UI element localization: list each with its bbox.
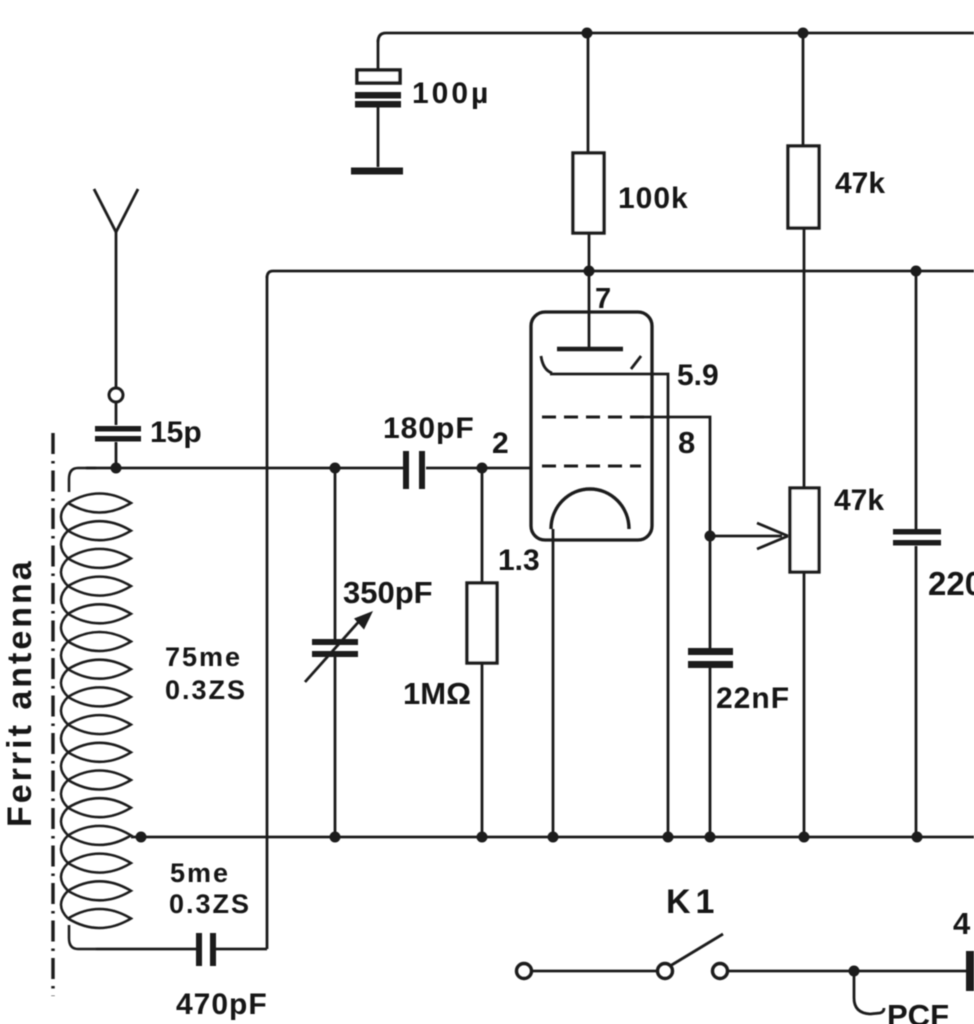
wire coil top to grid node [86, 467, 531, 470]
junction dot PCF pointer [849, 966, 860, 977]
wire cathode return bus [131, 836, 974, 839]
wire coil bottom to 470pF [96, 948, 196, 951]
resistor R1 100k [573, 33, 604, 271]
svg-text:47k: 47k [835, 167, 885, 200]
svg-text:8: 8 [678, 425, 695, 460]
svg-text:7: 7 [595, 283, 611, 315]
svg-text:5me: 5me [170, 858, 230, 888]
junction dot 22nF / bus [705, 832, 716, 843]
svg-text:K1: K1 [666, 883, 719, 921]
svg-text:100k: 100k [618, 182, 689, 215]
wire switch to battery [728, 970, 966, 973]
resistor R3 1M [467, 468, 497, 837]
tube grid g2 dashed [542, 416, 645, 419]
capacitor C1 100u electrolytic [355, 70, 401, 108]
svg-text:22nF: 22nF [716, 682, 790, 715]
resistor R2 47k top [788, 33, 819, 488]
svg-text:PCF: PCF [887, 998, 949, 1024]
junction dot pot / bus [799, 832, 810, 843]
junction dot node 2 / 1M branch [477, 463, 488, 474]
tube anode plate [557, 347, 623, 352]
junction dot 220 / bus [912, 832, 923, 843]
junction dot 1M / bus [477, 832, 488, 843]
svg-text:470pF: 470pF [176, 988, 268, 1021]
capacitor C7 220 [893, 271, 941, 837]
potentiometer wiper arrow [710, 523, 788, 549]
junction dot cathode / bus [548, 832, 559, 843]
svg-text:15p: 15p [150, 416, 202, 449]
svg-text:180pF: 180pF [383, 412, 475, 445]
capacitor C5 180pF [403, 451, 425, 489]
capacitor C3 470pF [196, 933, 267, 966]
wire anode supply bus [267, 271, 974, 278]
svg-text:1.3: 1.3 [498, 544, 540, 577]
junction dot bus2 / 220 cap [911, 266, 922, 277]
junction dot coil tap [136, 832, 147, 843]
svg-text:47k: 47k [834, 484, 884, 517]
svg-text:Ferrit antenna: Ferrit antenna [1, 558, 39, 827]
ground [351, 168, 403, 175]
svg-text:75me: 75me [165, 642, 242, 672]
wire top supply bus [378, 33, 974, 42]
tube cathode [551, 489, 629, 529]
capacitor C2 15p [95, 426, 141, 468]
capacitor C4 350pF variable [305, 468, 373, 837]
svg-text:0.3ZS: 0.3ZS [165, 675, 247, 705]
svg-text:1MΩ: 1MΩ [403, 676, 471, 711]
wire to capacitor 100u [377, 40, 380, 70]
capacitor C6 22nF [688, 648, 733, 837]
junction dot bus2 / tube pin7 [584, 266, 595, 277]
tube beam electrode [541, 356, 652, 374]
battery terminal plate [966, 951, 974, 991]
junction dot 15p / coil wire [111, 463, 122, 474]
tube pin 7 wire [588, 271, 591, 347]
inductor L1 winding (16 turns) [61, 468, 131, 949]
svg-text:100µ: 100µ [412, 77, 491, 110]
wire left drop from bus2 to 470pF [266, 276, 269, 949]
junction dot top bus / 100k [582, 28, 593, 39]
junction dot 5.9 / bus [663, 832, 674, 843]
junction dot top bus / 47k [798, 28, 809, 39]
pointer curve to PCF label [854, 974, 884, 1014]
antenna [94, 189, 138, 425]
svg-text:2: 2 [492, 427, 509, 460]
tube U1 envelope [531, 312, 652, 540]
ferrite rod dash-dot line [51, 433, 54, 996]
wire cathode pin 1.3 [552, 529, 555, 837]
wire pin 8 [644, 417, 710, 648]
junction dot 350pF branch [330, 463, 341, 474]
switch K1 [517, 934, 728, 979]
tube grid g1 dashed [542, 465, 641, 468]
svg-text:220: 220 [928, 565, 974, 602]
potentiometer P1 47k body [790, 488, 819, 837]
wire 100u to ground [377, 107, 380, 167]
svg-text:5.9: 5.9 [677, 359, 719, 392]
svg-text:4: 4 [953, 906, 971, 941]
junction dot 350pF / bus [330, 832, 341, 843]
wire pin 5.9 [652, 374, 668, 837]
svg-text:0.3ZS: 0.3ZS [169, 889, 251, 919]
junction dot pin8 / wiper [705, 531, 716, 542]
svg-text:350pF: 350pF [343, 575, 433, 610]
